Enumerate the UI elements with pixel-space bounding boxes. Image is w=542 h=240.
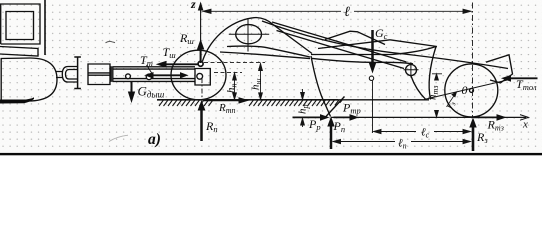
dim l_c — [374, 131, 471, 133]
clevis pin vertical — [74, 57, 81, 89]
dimension lines — [202, 3, 473, 144]
dim h_r bottom arrow — [302, 120, 304, 128]
z axis — [200, 3, 202, 61]
x axis arrowhead — [520, 115, 529, 121]
ground hatch right — [249, 100, 342, 106]
force R_tp arrow — [204, 99, 242, 101]
force P_tr arrow — [334, 116, 353, 118]
trunnion incline line — [424, 80, 510, 100]
rear axle centerline — [472, 3, 474, 118]
force G_c arrow — [371, 30, 374, 66]
lever line — [318, 40, 390, 49]
tractor fender — [0, 47, 38, 57]
gooseneck band lower — [220, 52, 310, 59]
dim h_r top arrow — [302, 89, 304, 99]
drawbar (dyshlo) — [111, 66, 195, 82]
x axis line — [331, 116, 526, 118]
pivot circle under G_c — [369, 76, 373, 80]
dim l_p — [333, 141, 471, 143]
svg-text:0: 0 — [462, 83, 468, 97]
force R_p arrow — [200, 107, 203, 141]
front contact centerline — [201, 78, 203, 100]
force P_p arrow — [330, 123, 333, 149]
beam hinge cross — [404, 62, 419, 77]
force P_r arrow — [293, 116, 325, 118]
tractor body — [1, 58, 57, 101]
ground surface line — [157, 99, 338, 101]
bowl rear wall — [429, 47, 436, 100]
frame top line — [262, 21, 508, 69]
drawbar joint circle 2 — [146, 74, 152, 80]
gooseneck band upper — [227, 46, 310, 57]
scan artifact bottom bar — [0, 153, 542, 155]
dim h_tz — [432, 74, 442, 117]
svg-text:z: z — [190, 0, 196, 11]
force T_tol arrow — [508, 77, 538, 79]
dim h_sh — [260, 64, 262, 99]
ink scratch 1 — [106, 41, 116, 42]
bowl floor — [337, 99, 429, 101]
tractor hitch bars — [56, 72, 63, 78]
T_t leader line — [147, 65, 153, 74]
lever line 2 — [390, 40, 437, 47]
gooseneck arch upper — [203, 18, 313, 62]
bowl top edge — [311, 58, 413, 64]
linkage peak — [325, 31, 385, 44]
clevis hook outer — [62, 67, 78, 83]
svg-text:x: x — [522, 119, 528, 131]
rear wheel — [445, 64, 498, 117]
paper background — [0, 0, 542, 156]
force T_t arrow — [149, 74, 184, 76]
hitch kingpin circle — [198, 61, 203, 66]
arch roller ellipse — [236, 25, 262, 44]
G_c extension line — [372, 81, 374, 133]
tractor cab window — [6, 12, 34, 40]
tractor mast — [44, 0, 46, 55]
kingpin bracket — [195, 69, 210, 86]
bowl front edge — [311, 56, 331, 117]
dim L line — [205, 10, 469, 12]
tractor cab — [1, 4, 40, 44]
drawbar block — [88, 64, 110, 85]
blade diagonal — [326, 97, 345, 118]
svg-text:а): а) — [148, 131, 161, 148]
svg-text:ℓ: ℓ — [344, 5, 350, 20]
push plate — [486, 55, 513, 83]
ink scratch 2 — [109, 135, 128, 141]
axle level dashed line — [214, 72, 242, 74]
force R_sh arrow — [200, 43, 202, 63]
rear wheel hub — [470, 88, 474, 92]
force R_z arrow — [472, 124, 475, 151]
bowl top rail — [311, 47, 436, 55]
beam upper from arch — [272, 22, 407, 62]
beam hinge circle — [406, 65, 417, 76]
drawbar joint circle — [126, 74, 131, 79]
dim h_p — [234, 74, 236, 99]
force G_dysh arrow — [131, 81, 133, 97]
scan artifact left bar — [0, 97, 34, 103]
ground and hatching — [157, 100, 529, 120]
ground hatch left — [159, 100, 213, 106]
front wheel — [171, 50, 226, 100]
bowl rear lever — [411, 76, 426, 100]
beam lower from arch — [277, 31, 405, 69]
force T_sh arrow — [160, 63, 199, 65]
bracket pivot circle — [197, 73, 203, 79]
hitch level dashed line — [204, 61, 265, 63]
clevis hook inner — [66, 70, 79, 80]
force R_tz arrow — [474, 116, 500, 118]
radius line r3 — [447, 92, 457, 107]
arch roller cross — [229, 18, 269, 51]
